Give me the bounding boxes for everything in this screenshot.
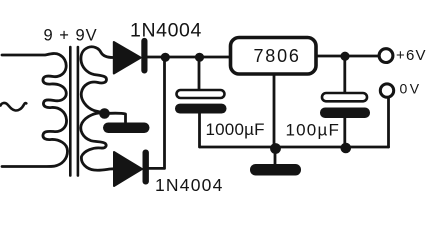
svg-text:100µF: 100µF [286,121,341,140]
svg-text:1N4004: 1N4004 [155,175,224,195]
svg-text:7806: 7806 [254,46,301,66]
svg-text:1000µF: 1000µF [206,120,265,139]
svg-text:0V: 0V [400,81,422,97]
svg-text:+6V: +6V [396,47,427,64]
svg-text:1N4004: 1N4004 [130,20,202,42]
svg-text:9 + 9V: 9 + 9V [44,27,98,45]
